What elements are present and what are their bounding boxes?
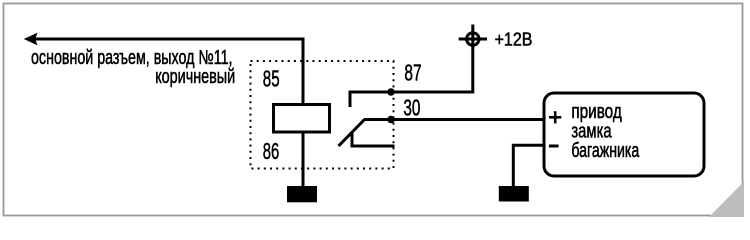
- wire: coil pin 86 to ground: [302, 132, 305, 186]
- wire: actuator minus to ground: [513, 145, 544, 186]
- relay movable contact arm: [339, 120, 365, 147]
- minus terminal: [549, 145, 559, 148]
- contact arm pivot stub: [351, 133, 354, 148]
- svg-text:багажника: багажника: [571, 140, 640, 162]
- junction dot pin 30: [387, 116, 395, 124]
- svg-text:86: 86: [263, 138, 280, 164]
- actuator box: привод замка багажника: [544, 93, 704, 176]
- svg-text:+12В: +12В: [495, 29, 533, 50]
- svg-text:коричневый: коричневый: [155, 66, 235, 88]
- svg-text:85: 85: [263, 66, 280, 92]
- relay dashed outline: [251, 61, 394, 169]
- svg-text:30: 30: [403, 94, 420, 120]
- ground (actuator): [499, 186, 529, 202]
- arrow to main connector: [24, 33, 38, 46]
- +12V supply symbol: [459, 33, 487, 45]
- wire: main harness output to relay pin 85: [34, 39, 303, 106]
- junction dot pin 87: [387, 88, 395, 96]
- wire: pin 87 to +12V: [350, 25, 473, 93]
- contact 87 fixed stub: [349, 91, 352, 108]
- ground (relay coil): [287, 186, 317, 202]
- wire: pin 30 to actuator plus: [364, 118, 544, 121]
- plus terminal: [549, 111, 561, 123]
- contact common lead: [351, 145, 395, 148]
- svg-text:87: 87: [404, 59, 421, 85]
- relay coil K1: [274, 105, 330, 133]
